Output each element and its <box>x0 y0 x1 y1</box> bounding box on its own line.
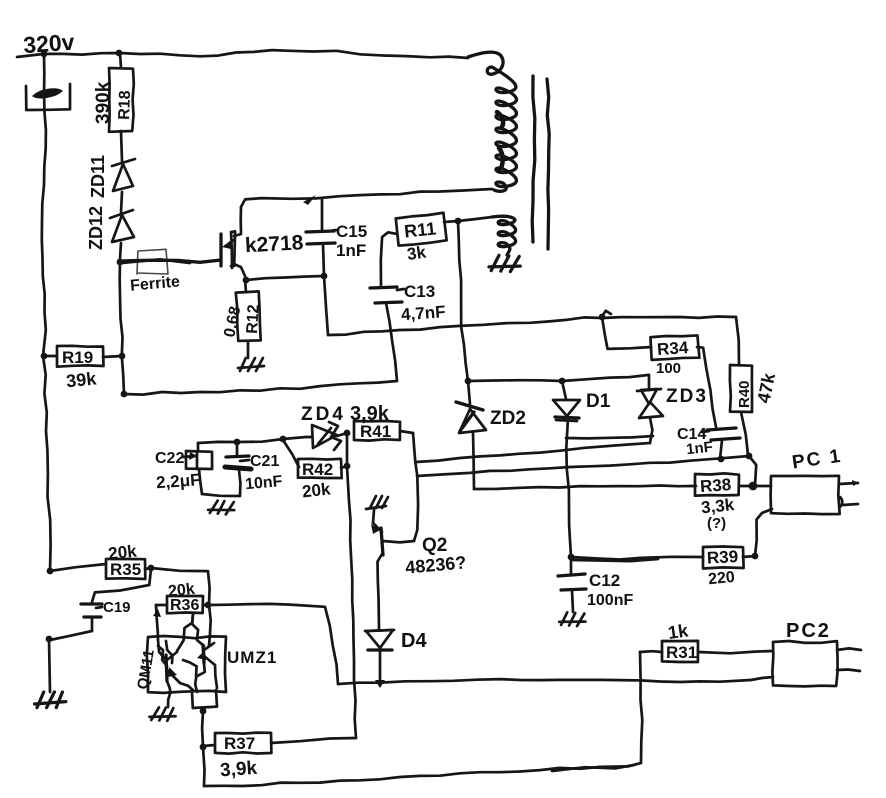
wire R39 left doubled stroke <box>573 559 658 561</box>
wire drain to transformer primary <box>241 189 492 207</box>
capacitor C14 <box>707 428 740 459</box>
transformer T1 secondary winding <box>492 216 516 255</box>
resistor R41 <box>354 421 413 441</box>
node C15 bottom junction <box>321 273 328 280</box>
label R39 <box>706 547 738 568</box>
label 3,9k <box>350 403 390 425</box>
resistor R18 <box>109 53 134 161</box>
wire UMZ1 internal 3 <box>209 605 211 645</box>
svg-text:20k: 20k <box>107 541 138 563</box>
node source junction <box>243 277 250 284</box>
svg-text:R12: R12 <box>244 304 263 334</box>
wire UMZ1 bottom box <box>192 690 217 708</box>
label k2718 <box>244 231 304 257</box>
svg-text:20k: 20k <box>167 581 195 601</box>
label R37 <box>224 734 255 753</box>
svg-text:ZD4: ZD4 <box>301 404 346 425</box>
svg-text:R41: R41 <box>360 422 391 441</box>
label C12 <box>589 571 620 590</box>
wire main vertical bottom <box>49 639 50 692</box>
wire rail ZD row <box>468 379 562 382</box>
node R19 right junction <box>119 353 126 360</box>
label C21 <box>240 453 279 470</box>
resistor R19 <box>44 346 122 367</box>
node C14 bottom junction <box>718 456 725 463</box>
wire to R34 <box>602 317 651 349</box>
optocoupler PC2 <box>772 641 837 686</box>
node UMZ1 bottom junction <box>200 708 207 715</box>
resistor R11 <box>381 213 458 287</box>
label 20k <box>167 581 195 601</box>
transistor UMZ1 right <box>197 643 215 665</box>
label PC2 <box>786 620 831 642</box>
label 100 <box>656 360 681 377</box>
label C15 <box>330 222 367 241</box>
diode D4 <box>365 630 394 682</box>
node D4 bottom junction <box>375 680 385 688</box>
label ZD2 <box>490 408 526 429</box>
wire source to C15 node <box>246 276 323 280</box>
wire rail B corner down <box>749 456 756 486</box>
label 4,7nF <box>400 302 446 324</box>
wire R35 to R36 vertical <box>151 568 210 605</box>
svg-text:1k: 1k <box>667 620 691 643</box>
svg-text:C13: C13 <box>404 282 435 301</box>
wire UMZ1 internal 9 <box>158 646 167 666</box>
label R35 <box>110 560 141 579</box>
svg-text:100nF: 100nF <box>587 592 633 609</box>
wire top 320V rail <box>17 50 468 58</box>
label R18 <box>116 90 134 120</box>
svg-text:ZD11: ZD11 <box>88 155 108 198</box>
optocoupler PC1 <box>771 476 840 514</box>
zener ZD2 <box>456 381 486 489</box>
svg-text:R42: R42 <box>302 460 333 479</box>
label 47k <box>753 370 779 405</box>
capacitor C22 <box>186 443 212 494</box>
wire UMZ1 left leg <box>167 681 170 707</box>
wire down to R37 <box>347 466 356 738</box>
wire R41 down to Q2 base <box>413 433 418 541</box>
capacitor C21 <box>225 442 251 495</box>
wire rail B to C14 <box>417 456 749 476</box>
resistor R37 <box>203 733 356 754</box>
wire R36 left down <box>153 605 161 640</box>
label C13 <box>397 282 435 301</box>
label PC 1 <box>791 446 844 474</box>
transistor UMZ1 left <box>166 652 180 683</box>
zener ZD4 <box>306 422 347 450</box>
wire PC1 pin4 out <box>839 480 859 486</box>
wire UMZ1 internal 5 <box>180 683 194 691</box>
label Ferrite <box>130 273 181 294</box>
capacitor C19 <box>50 604 102 640</box>
svg-text:3k: 3k <box>406 242 428 264</box>
resistor R42 <box>298 459 347 478</box>
node R35 right junction <box>148 565 155 572</box>
label 1k <box>667 620 691 643</box>
label 2,2uF <box>155 470 201 492</box>
fuse F1 <box>26 84 70 110</box>
svg-text:1nF: 1nF <box>336 241 366 260</box>
label C22 <box>155 450 197 467</box>
wire bottom rail up to R31 <box>640 652 642 763</box>
wire C19 tap <box>92 569 151 602</box>
node R39 right junction <box>752 553 759 560</box>
svg-text:UMZ1: UMZ1 <box>227 648 277 667</box>
diode D1 <box>553 381 580 557</box>
label Q2 <box>422 535 447 556</box>
wire gate rail with ferrite <box>117 259 221 266</box>
wire main left vertical <box>42 54 51 571</box>
wire rail to ZD3 <box>562 375 649 390</box>
svg-text:PC2: PC2 <box>786 620 831 642</box>
svg-text:ZD12: ZD12 <box>86 206 106 250</box>
wire PC1 pin2 down <box>755 509 772 556</box>
label R38 <box>699 475 731 496</box>
label 3,3k <box>700 495 735 517</box>
capacitor C15 <box>306 199 335 276</box>
mosfet Q1 K2718 <box>221 207 245 276</box>
transformer core <box>532 76 549 249</box>
label R34 <box>656 338 689 359</box>
svg-text:R35: R35 <box>110 560 141 579</box>
svg-text:k2718: k2718 <box>244 231 304 257</box>
wire D4 output rail <box>338 679 751 684</box>
svg-text:D1: D1 <box>586 391 611 412</box>
zener ZD11 <box>112 159 135 212</box>
node R42 right junction <box>344 463 351 470</box>
ground Q2 top <box>366 496 388 509</box>
node ZD4 left junction <box>280 436 287 443</box>
svg-text:R18: R18 <box>116 90 134 120</box>
wire R11 to secondary <box>458 217 492 221</box>
wire UMZ1 internal 4 <box>195 664 205 692</box>
wire rail A R41-ZD3 <box>416 443 650 462</box>
svg-text:C15: C15 <box>336 222 367 241</box>
node R19 left junction <box>41 353 48 360</box>
node D1 top junction <box>559 378 566 385</box>
svg-text:39k: 39k <box>65 368 98 391</box>
ground UMZ1 <box>149 707 176 721</box>
svg-text:1nF: 1nF <box>685 439 713 459</box>
label C19 <box>96 599 131 616</box>
wire cap rail <box>198 442 237 443</box>
wire UMZ1 internal 7 <box>192 613 204 646</box>
node PC1 input junction <box>749 482 758 491</box>
svg-text:3,9k: 3,9k <box>219 758 258 782</box>
ground secondary <box>489 255 521 272</box>
transformer T1 primary winding <box>468 52 516 191</box>
svg-text:390k: 390k <box>93 81 114 124</box>
label D1 <box>586 391 611 412</box>
wire rail C to R38 <box>474 486 696 490</box>
svg-text:C21: C21 <box>250 453 279 470</box>
svg-text:R40: R40 <box>736 380 753 408</box>
label D4 <box>401 630 427 652</box>
wire UMZ1 internal 6 <box>166 641 173 663</box>
svg-text:C22: C22 <box>155 450 184 467</box>
label 0,68 <box>221 305 244 339</box>
label (?) <box>707 515 726 532</box>
label 3,9k <box>219 758 258 782</box>
label 1nF <box>336 241 366 260</box>
label 3k <box>406 242 428 264</box>
node C21 top junction <box>234 439 241 446</box>
wire mid rail <box>328 317 736 336</box>
label R19 <box>62 348 93 367</box>
svg-text:2,2μF: 2,2μF <box>155 470 201 492</box>
label R11 <box>403 218 437 241</box>
ground main <box>35 692 66 708</box>
node R35 left junction <box>47 568 54 575</box>
label R42 <box>302 460 333 479</box>
label 220 <box>707 569 735 588</box>
svg-text:R39: R39 <box>706 547 738 568</box>
ground R12 <box>238 358 264 371</box>
wire UMZ1 internal 1 <box>158 640 166 660</box>
svg-text:Q2: Q2 <box>422 535 447 556</box>
node R37 left junction <box>200 744 207 751</box>
svg-text:ZD3: ZD3 <box>666 386 708 407</box>
node top-left junction <box>41 51 48 58</box>
wire long to D4 rail <box>208 604 338 684</box>
capacitor C13 <box>370 287 402 381</box>
label R40 <box>736 380 753 408</box>
label ZD11 <box>88 155 108 198</box>
ground C12 <box>559 612 586 627</box>
label C14 <box>677 426 709 443</box>
svg-text:R31: R31 <box>666 643 697 662</box>
wire R11 down vertical <box>458 221 468 381</box>
wire UMZ1 internal 8 <box>183 660 197 676</box>
ground C21 C22 <box>208 500 235 515</box>
wire rail y390 <box>124 381 397 395</box>
resistor R36 <box>156 596 208 613</box>
resistor R35 <box>50 559 151 579</box>
label 320v <box>22 29 75 59</box>
zener ZD12 <box>110 210 134 259</box>
svg-text:20k: 20k <box>301 479 332 501</box>
zener ZD3 <box>566 389 663 443</box>
wire bottom rail <box>204 763 641 786</box>
label R31 <box>666 643 697 662</box>
label ZD3 <box>666 386 708 407</box>
node R11 right junction <box>455 218 462 225</box>
label ZD12 <box>86 206 106 250</box>
node mid rail junction <box>599 311 611 321</box>
wire UMZ1 internal 2 <box>177 613 193 651</box>
resistor R38 <box>695 473 753 495</box>
svg-text:100: 100 <box>656 360 681 377</box>
svg-text:220: 220 <box>707 569 735 588</box>
label 100nF <box>587 592 633 609</box>
wire rail to PC2 pin2 <box>751 677 773 680</box>
svg-text:(?): (?) <box>707 515 726 532</box>
wire PC2 pin3 out <box>837 670 860 672</box>
wire cap bottom <box>202 494 240 496</box>
svg-text:C12: C12 <box>589 571 620 590</box>
wire down to bottom rail <box>203 747 205 786</box>
label R41 <box>360 422 391 441</box>
svg-text:C19: C19 <box>103 599 131 616</box>
svg-text:R34: R34 <box>656 338 689 359</box>
resistor R40 <box>730 365 752 455</box>
wire C15 node down <box>324 276 328 335</box>
transistor Q2 <box>371 510 414 629</box>
svg-text:R19: R19 <box>62 348 93 367</box>
wire ZD12 down to R19 node <box>120 259 124 394</box>
wire UMZ1 emitter right <box>215 665 217 688</box>
label 39k <box>65 368 98 391</box>
label 48236? <box>405 552 468 577</box>
wire R42 from node <box>283 440 299 467</box>
node R36 right junction <box>205 602 212 609</box>
node C12 top junction <box>568 554 575 561</box>
wire R41 node down <box>346 433 349 466</box>
label 390k <box>93 81 114 124</box>
resistor R12 <box>236 280 262 358</box>
node C19 bottom junction <box>46 636 53 643</box>
label ZD4 <box>301 404 346 425</box>
svg-text:R37: R37 <box>224 734 255 753</box>
capacitor C12 <box>558 557 586 612</box>
ic UMZ1 box <box>147 636 226 693</box>
svg-text:R11: R11 <box>403 218 437 241</box>
wire UMZ1 to R37 <box>201 711 205 747</box>
node ZD2 top junction <box>465 378 472 385</box>
label 20k <box>301 479 332 501</box>
label 10nF <box>244 473 283 493</box>
resistor R34 <box>650 334 716 427</box>
label UMZ1 <box>227 648 277 667</box>
node R40 bottom junction <box>746 453 753 460</box>
label 20k <box>107 541 138 563</box>
wire rail corner to R40 <box>736 317 739 365</box>
node R41 left junction <box>344 430 351 437</box>
node R18 top junction <box>116 50 123 57</box>
svg-text:4,7nF: 4,7nF <box>400 302 446 324</box>
wire PC1 pin3 out <box>840 497 858 507</box>
ferrite bead <box>137 249 168 274</box>
label QM11 <box>134 648 158 690</box>
wire rail to ZD4 <box>237 437 306 442</box>
label R12 <box>244 304 263 334</box>
svg-text:ZD2: ZD2 <box>490 408 526 429</box>
svg-text:10nF: 10nF <box>244 473 283 493</box>
svg-text:R38: R38 <box>699 475 731 496</box>
wire PC2 pin4 out <box>837 648 861 650</box>
wire to PC1 pin1 <box>753 485 771 488</box>
resistor R39 <box>571 547 755 569</box>
node rail-390 corner <box>121 391 128 398</box>
svg-text:D4: D4 <box>401 630 427 652</box>
resistor R31 <box>640 641 772 662</box>
label R36 <box>170 597 199 614</box>
label 1nF <box>685 439 713 459</box>
